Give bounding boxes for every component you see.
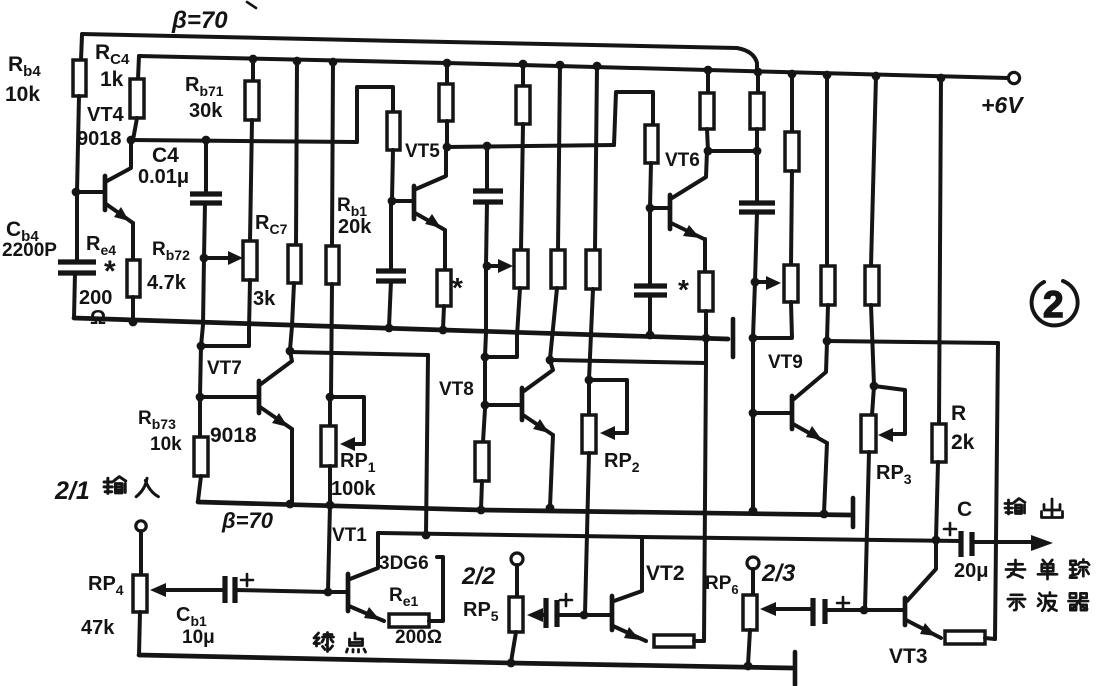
node: RP6 at ground bus: [744, 662, 753, 671]
wire: VT6 base node down to bypass cap C: [648, 212, 652, 286]
capacitor Cb1 10u: [225, 576, 235, 603]
node: rail-792 at bus: [788, 70, 797, 79]
wire: VT7 base rail to Rb73: [198, 401, 202, 437]
node: jog joins VT7 base rail: [197, 342, 206, 351]
node: rail-757 at collector link: [753, 147, 762, 156]
resistor on rail-872 (RP3 rail): [865, 266, 879, 305]
svg-text:9018: 9018: [77, 128, 122, 150]
wire: Cb1 to VT1 base node: [235, 590, 328, 592]
wire: bus to stage2 collector-bias resistor: [521, 64, 525, 86]
node: VT1 base: [324, 588, 333, 597]
resistor Rb73 10k: [194, 437, 208, 476]
resistor on rail-594 (RP2 rail): [586, 250, 600, 289]
node: RP5 at ground bus: [507, 659, 516, 668]
wire: wiper node B arrow line: [487, 264, 501, 268]
node: Re4 at mid bus: [129, 318, 138, 327]
wire: Re1 right lead up and stub left: [429, 557, 443, 621]
arrow into RC7 (wiper): [228, 251, 243, 265]
node: rail-941 at bus: [937, 74, 946, 83]
wire: VT8 collector link to mid-bus node: [550, 339, 706, 363]
wire: RC4 bottom to collector node: [133, 118, 137, 140]
resistor Re4 200ohm: [127, 260, 140, 297]
svg-text:9018: 9018: [210, 424, 257, 447]
node: VT5 collector rail at bus: [443, 59, 452, 68]
svg-text:3DG6: 3DG6: [379, 553, 429, 574]
wire: RP3 top node to pot: [872, 386, 874, 415]
wire: rail-757 down to coupling cap C: [755, 151, 759, 203]
transistor VT5: [392, 147, 446, 270]
label shuru (input) after 2/1: [104, 477, 158, 497]
wire: rail-828 resistor to VT9 collector node: [827, 305, 828, 340]
resistor rail-707 (VT6 collector load): [700, 93, 714, 129]
terminal input 2/2: [511, 553, 523, 565]
polarity + mark at RP5 cap: [560, 594, 572, 606]
node: jog joins VT8 base rail: [481, 353, 490, 362]
wire: staircase B resistor down to VT6 base node: [650, 163, 651, 207]
wire: VT3 base node to bar: [864, 608, 903, 612]
wire: bus down rail-333: [332, 62, 333, 246]
wire: bus down rail-594: [595, 66, 597, 250]
capacitor stage2 coupling: [473, 191, 503, 202]
node: output junction: [932, 536, 941, 545]
figure number (2) circled: [1032, 281, 1078, 325]
wire: rail-594 resistor down to RP2 top node: [589, 289, 593, 379]
wire: Re4 to mid bus: [131, 297, 135, 322]
wire: RP1 wiper loop: [331, 397, 364, 444]
node: stage2 wiper junction: [483, 262, 492, 271]
wire: rail-707 resistor to VT6 collector node: [707, 129, 708, 151]
wire: RP1 top node to pot: [328, 397, 332, 426]
node: VT9 collector at bus2: [823, 337, 832, 346]
wire: beta=70 feedback line along top: [82, 34, 757, 72]
wire: RP6 bottom to ground bus: [748, 630, 750, 665]
terminal input 2/3: [747, 557, 759, 569]
wire: bus down rail-828: [825, 75, 829, 266]
wire: VT7 base rail down: [200, 346, 201, 396]
wire: C4 down to Rb72 wiper node: [204, 203, 205, 258]
node: VT7 emitter at beta line: [286, 500, 295, 509]
resistor Re1 200ohm (horizontal): [389, 614, 429, 627]
svg-text:4.7k: 4.7k: [147, 272, 187, 294]
capacitor VT5 base bypass: [376, 271, 406, 281]
resistor Rb71 30k: [245, 81, 259, 120]
wire: collector line VT4 to staircase: [131, 140, 357, 142]
transistor VT6: [650, 151, 707, 272]
wire: RP3 bottom down to VT3 base node: [865, 452, 869, 609]
wire: stage3 wiper node down to VT9 base rail: [753, 282, 755, 337]
svg-text:VT9: VT9: [768, 352, 803, 373]
capacitor Cb4 2200P: [58, 262, 96, 273]
wire: staircase resistor down to VT5 base node: [392, 150, 393, 200]
potentiometer RP2: [582, 415, 596, 453]
wire: emitter/beta common line: [198, 502, 850, 515]
svg-text:2/1: 2/1: [54, 477, 90, 505]
wire: right rail of VT7 box down to VT1 collector line: [426, 355, 428, 534]
wire: +6V supply bus: [139, 56, 1008, 78]
wire: bus corner down to RC4: [138, 56, 139, 79]
wire: rail-295 resistor to VT7 collector node: [290, 283, 294, 350]
resistor VT5 emitter: [437, 270, 451, 306]
wire: 2/3 terminal down to RP6: [751, 569, 755, 595]
wire: bus down rail-941 to R 2k: [939, 78, 941, 424]
svg-text:200: 200: [79, 287, 112, 309]
node: VT7 collector: [286, 347, 295, 356]
wire: RP4 wiper to Cb1: [164, 588, 224, 592]
label lvdian (green dot): [314, 633, 366, 653]
wire: staircase B up-over to VT6 base resistor: [614, 92, 653, 145]
node: VT9 rail at beta line: [749, 507, 758, 516]
resistor VT5 collector load: [439, 84, 453, 121]
svg-text:100k: 100k: [331, 478, 376, 500]
svg-text:10k: 10k: [5, 83, 40, 106]
wire: top line corner down to Rb4: [81, 35, 82, 60]
svg-text:30k: 30k: [189, 100, 223, 122]
wire: rail-872 resistor down to RP3 top node: [871, 305, 874, 385]
wire: VT1 collector line (L2): [378, 533, 961, 541]
transistor VT3: [905, 540, 941, 638]
wire: stage3 pot down + jog left to VT9 rail: [753, 302, 792, 338]
wire: bus to VT5 collector resistor: [445, 63, 449, 84]
svg-text:20k: 20k: [338, 216, 372, 238]
node: VT6 emitter at mid bus: [702, 334, 711, 343]
node: VT4 collector / C4 line: [127, 136, 136, 145]
polarity + mark at Cb1: [241, 574, 253, 586]
wire: VT6 emitter resistor to mid bus: [704, 311, 708, 337]
wire: cap to VT3 base node: [825, 608, 864, 612]
wire: wiper node to RC7 arrow: [204, 256, 231, 260]
svg-text:*: *: [452, 272, 463, 303]
resistor VT8 base (rail): [475, 442, 489, 481]
node: VT2 base: [580, 611, 589, 620]
arrow into RP3 (wiper): [878, 428, 893, 442]
resistor on rail-828 (VT9 collector): [821, 266, 835, 305]
resistor VT5 base (staircase): [387, 112, 400, 150]
node: VT5 base: [388, 197, 397, 206]
resistor VT6 base (staircase B): [645, 125, 658, 163]
wire: VT8 base rail down: [483, 357, 487, 404]
node: VT5 emitter at mid bus: [439, 326, 448, 335]
wire: 2/2 terminal down to RP5: [515, 565, 519, 597]
potentiometer RP4 47k: [133, 575, 147, 612]
node: Rb71 at bus: [249, 55, 258, 64]
wire: rail-757 resistor to collector link: [755, 129, 759, 151]
wire: VT4 base node down to Cb4: [75, 196, 79, 262]
node: VT8 rail at beta line: [477, 506, 486, 515]
node: rail-594 at bus: [593, 62, 602, 71]
node: rail-333 at bus: [329, 58, 338, 67]
wire: input terminal down to RP4: [139, 531, 143, 575]
stray tick mark above bus: [247, 2, 256, 8]
svg-text:VT8: VT8: [439, 379, 474, 400]
svg-text:C4: C4: [152, 144, 179, 167]
transistor VT9: [753, 342, 827, 513]
wire: rail-705 from VT2 emitter up to mid bus: [704, 363, 706, 641]
wire: bypass cap C to mid bus: [648, 295, 652, 334]
junction bar: mid bus termination: [731, 319, 736, 357]
wire: RC7 bottom to mid bus: [249, 280, 250, 330]
wire: bus down rail-295: [296, 61, 297, 245]
wire: RP1 bottom to beta line: [328, 466, 332, 504]
capacitor VT6 base bypass: [634, 286, 667, 295]
transistor VT2: [612, 537, 646, 641]
node: VT8 collector: [546, 356, 555, 365]
svg-text:47k: 47k: [81, 617, 115, 639]
potentiometer RC7 3k: [243, 241, 257, 280]
capacitor C 20u output: [961, 531, 972, 557]
wire: wiper node down through mid bus to VT7 jog: [201, 258, 204, 346]
wire: bus down rail-558: [558, 65, 560, 250]
arrow into RP4 (wiper): [150, 583, 166, 597]
polarity + mark at output cap: [944, 523, 956, 535]
wire: VT3 emitter resistor to right rail: [985, 638, 995, 639]
node: rail-872 at bus: [872, 72, 881, 81]
wire: node down to coupling cap B: [485, 146, 489, 191]
svg-text:2: 2: [1043, 284, 1064, 325]
transistor VT4 9018: [77, 140, 133, 260]
wire: RP5 bottom to ground bus: [511, 632, 516, 662]
arrow into stage3 pot (wiper): [766, 276, 781, 290]
node: VT9 emitter at beta line: [820, 510, 829, 519]
node: VT8 emitter at beta line: [546, 504, 555, 513]
svg-text:VT1: VT1: [332, 525, 367, 546]
node: cap at mid bus: [385, 324, 394, 333]
wire: rail-333 resistor down to RP1 top node: [331, 284, 332, 396]
wire: VT2 emitter resistor to rail-705: [694, 639, 704, 643]
svg-text:20μ: 20μ: [954, 560, 988, 582]
wire: stage3 wiper arrow line: [755, 280, 768, 284]
node: VT9 base: [749, 409, 758, 418]
node: rail-523 at bus: [519, 60, 528, 69]
wire: VT9 base rail down: [751, 338, 755, 412]
resistor on rail-295 (stage1 bias): [288, 245, 301, 283]
resistor rail-757 (stage3 top): [750, 93, 764, 129]
svg-text:β=70: β=70: [221, 508, 274, 533]
wire: VT5 emitter resistor to mid bus: [443, 306, 444, 329]
polarity + mark at RP6 cap: [837, 597, 849, 609]
potentiometer RP1 100k: [321, 426, 336, 466]
svg-text:10k: 10k: [150, 434, 182, 455]
wire: Rb4 bottom to VT4 base node: [77, 96, 79, 192]
wire: bottom ground bus: [139, 655, 792, 668]
wire: bus2 from VT9 collector to right rail: [827, 341, 998, 343]
node: rail-828 at bus: [823, 71, 832, 80]
wire: VT8 base resistor to beta line: [481, 481, 482, 509]
wire: mid bus (stage emitter return): [74, 318, 728, 339]
junction bar: beta line termination: [851, 498, 856, 527]
wire: bus down rail-792: [790, 74, 794, 132]
svg-text:VT5: VT5: [405, 141, 440, 162]
wire: cap down to stage3 wiper node: [755, 212, 757, 282]
capacitor C4 0.01u: [190, 194, 222, 203]
wire: jog from RC7 rail to VT7 base rail: [201, 330, 249, 346]
node: VT7 box rail at L2: [422, 531, 431, 540]
junction bar: ground bus termination: [793, 652, 798, 685]
svg-text:VT4: VT4: [87, 104, 125, 126]
capacitor RP6 coupling: [813, 598, 825, 626]
svg-text:VT2: VT2: [646, 562, 685, 585]
wire: RP1 rail continues down to VT1 base: [328, 505, 330, 591]
node: rail-707 at bus: [704, 66, 713, 75]
node: RP1 top: [326, 393, 335, 402]
node: VT8 base: [481, 401, 490, 410]
svg-text:VT7: VT7: [207, 358, 242, 379]
wire: RP6 wiper line to cap: [774, 607, 811, 611]
wire: rail-558 resistor to VT8 collector node: [550, 288, 557, 359]
svg-text:VT6: VT6: [665, 150, 700, 171]
potentiometer stage2 (rail-523): [514, 250, 528, 288]
node: VT6 base: [646, 204, 655, 213]
svg-text:2/3: 2/3: [761, 560, 796, 587]
wire: Rb71 down to RC7: [250, 120, 252, 241]
wire: RP2 bottom down to VT2 base: [585, 453, 589, 614]
wire: RP5 wiper to cap: [541, 613, 545, 617]
node: VT7 base: [196, 393, 205, 402]
svg-text:2k: 2k: [951, 431, 975, 454]
svg-text:*: *: [104, 255, 116, 288]
arrow into RP2 (wiper): [600, 426, 615, 440]
wire: cap B down to wiper node B: [486, 202, 487, 266]
wire: right-edge rail down to VT3 emitter resistor: [995, 343, 998, 639]
svg-text:VT3: VT3: [889, 645, 928, 668]
node: VT6 collector: [704, 147, 713, 156]
transistor VT8: [485, 360, 553, 507]
wire: VT6 collector link to rail-757: [708, 149, 757, 153]
wire: VT7 collector line to right rail: [290, 352, 428, 355]
arrow into RP1 (wiper): [340, 437, 355, 451]
node: VT4 base junction: [72, 188, 81, 197]
label qudanzong (to single-trace): [1006, 559, 1089, 579]
wire: VT5 collector resistor down to node: [445, 121, 449, 147]
label shuchu (output): [1005, 499, 1063, 518]
node: RP3 top: [870, 382, 879, 391]
terminal +6V: [1008, 72, 1019, 83]
wire: cap to VT2 base: [557, 613, 584, 617]
svg-text:3k: 3k: [253, 288, 276, 310]
node: rail-295 at bus: [293, 57, 302, 66]
wire: RP2 wiper loop: [589, 380, 627, 433]
svg-text:10μ: 10μ: [182, 627, 215, 648]
resistor on rail-558 (stage2 bias): [551, 250, 565, 288]
wire: rail-792 resistor to stage3 pot: [791, 171, 792, 265]
node: RP1 at beta line: [326, 501, 335, 510]
wire: rail-523 resistor to pot: [521, 124, 523, 250]
transistor VT1 3DG6: [328, 533, 384, 621]
svg-text:200Ω: 200Ω: [395, 627, 442, 648]
wire: output line after cap: [972, 540, 1033, 544]
potentiometer stage3 (rail-792): [784, 265, 798, 302]
wire: Cb4 to lower-left bus corner: [74, 273, 75, 318]
wire: bus to rail-757 resistor: [756, 72, 760, 93]
svg-text:*: *: [678, 274, 689, 305]
node: mid cap B junction: [483, 142, 492, 151]
node: RP2 top: [585, 376, 594, 385]
svg-text:C: C: [957, 498, 972, 521]
wire: bus to Rb71: [251, 59, 255, 81]
wire: VT5 collector line to staircase B: [447, 145, 614, 147]
node: cap C at mid bus: [646, 331, 655, 340]
svg-text:2200P: 2200P: [2, 240, 57, 261]
arrow into RP6 (wiper): [760, 602, 776, 616]
svg-text:2/2: 2/2: [461, 563, 496, 590]
node: VT3 base: [860, 606, 869, 615]
wire: bus to rail-707 resistor: [706, 70, 710, 93]
wire: RP2 top node to pot: [587, 380, 591, 415]
svg-text:β=70: β=70: [171, 7, 228, 34]
wire: staircase up-over to VT5 base resistor: [357, 87, 393, 142]
node: Rb72 wiper junction: [200, 254, 209, 263]
capacitor RP5 coupling: [546, 598, 557, 628]
arrowhead output: [1031, 535, 1053, 551]
wire: VT8 base rail to resistor: [483, 409, 485, 442]
transistor VT7 9018: [200, 351, 292, 503]
resistor rail-792 (stage3 bias): [785, 132, 799, 171]
resistor R 2k: [932, 424, 946, 462]
svg-text:0.01μ: 0.01μ: [138, 166, 189, 188]
label shiboqi (oscilloscope): [1008, 592, 1088, 610]
wire: bypass cap to mid bus: [389, 281, 391, 327]
svg-text:1k: 1k: [100, 68, 124, 91]
resistor stage2 top (rail-523): [516, 86, 530, 124]
svg-text:+6V: +6V: [981, 92, 1024, 118]
wire: Rb73 to box bottom corner: [198, 476, 201, 501]
wire: wiper node B down through bus to VT8 jog: [485, 266, 486, 356]
wire: bus down rail-872: [871, 76, 876, 266]
resistor Rb1 20k: [326, 246, 339, 284]
resistor VT2 emitter (horizontal): [654, 635, 694, 647]
node: VT5 collector at line: [443, 143, 452, 152]
node: stage3 wiper junction: [751, 278, 760, 287]
capacitor stage3 coupling: [739, 203, 775, 212]
wire: C4 node down to C4 cap: [204, 140, 208, 194]
wire: stage2 pot down + jog to VT8 base rail: [486, 288, 520, 357]
wire: VT9 base rail to beta line: [751, 417, 755, 510]
node: rail-757 at bus: [754, 68, 763, 77]
resistor Rb4 10k: [73, 60, 86, 96]
wire: RP3 wiper loop: [874, 386, 905, 434]
wire: VT5 base node down to bypass cap: [389, 205, 393, 271]
arrow into RP5 (wiper): [527, 608, 543, 622]
potentiometer RP3: [861, 415, 876, 452]
terminal input 2/1: [136, 521, 146, 531]
potentiometer RP5: [509, 597, 523, 632]
node: VT9 base rail at bus2: [749, 334, 758, 343]
arrow into stage2 pot (wiper): [498, 259, 513, 273]
resistor VT3 emitter (horizontal): [945, 631, 985, 644]
wire: VT2 base node to bar: [584, 613, 611, 617]
svg-text:R: R: [951, 402, 966, 425]
potentiometer RP6: [743, 595, 757, 630]
node: C4 top connection: [202, 136, 211, 145]
wire: RP4 bottom to ground bus corner: [139, 612, 140, 655]
resistor VT6 emitter: [699, 272, 713, 311]
node: rail-558 at bus: [556, 61, 565, 70]
resistor RC4 1k: [130, 79, 144, 118]
wire: R bottom to output node: [936, 462, 938, 539]
